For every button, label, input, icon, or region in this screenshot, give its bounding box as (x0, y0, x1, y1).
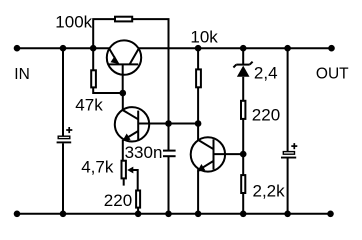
svg-text:IN: IN (14, 66, 29, 83)
svg-text:220: 220 (252, 105, 280, 124)
svg-text:OUT: OUT (316, 66, 349, 83)
svg-text:47k: 47k (75, 96, 103, 115)
svg-text:330n: 330n (125, 143, 163, 162)
svg-text:100k: 100k (55, 13, 92, 32)
svg-text:4,7k: 4,7k (81, 158, 114, 177)
svg-text:10k: 10k (190, 27, 218, 46)
svg-text:2,4: 2,4 (254, 63, 278, 82)
svg-text:2,2k: 2,2k (253, 182, 286, 201)
svg-text:220: 220 (104, 191, 132, 210)
